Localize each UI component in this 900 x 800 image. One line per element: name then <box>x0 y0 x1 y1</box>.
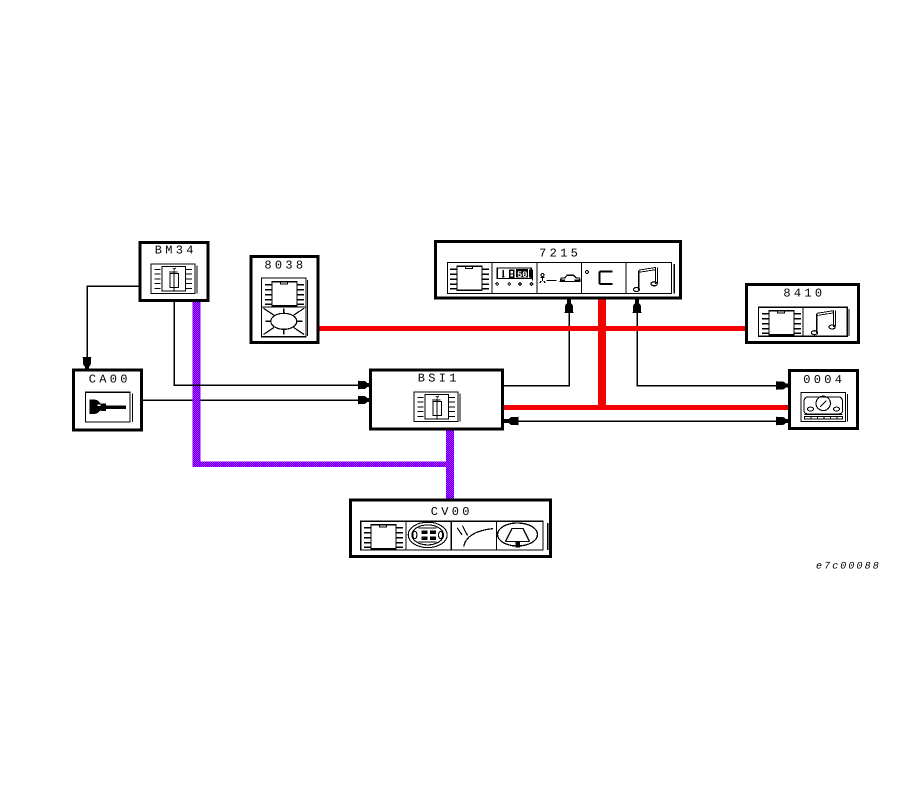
icon 8410 music note <box>811 311 835 335</box>
svg-text:8038: 8038 <box>264 259 306 273</box>
icon CV00 connector oval <box>408 522 447 547</box>
arrow into 0004 upper <box>776 381 791 390</box>
wire BM34 left to CA00 top <box>87 286 140 369</box>
svg-text:0004: 0004 <box>803 373 845 387</box>
wire 7215 to 0004 <box>637 299 789 386</box>
svg-text:7215: 7215 <box>539 247 581 261</box>
icon CV00 chip <box>364 525 403 549</box>
wire BSI1 right up to 7215 <box>503 299 569 386</box>
box BSI1 <box>371 370 503 429</box>
wire red vertical from 7215 down <box>598 298 606 410</box>
svg-text:CA00: CA00 <box>89 372 131 386</box>
arrow into BSI1 left upper <box>358 381 373 390</box>
icon 7215 music note <box>633 267 657 291</box>
icon 7215 temperature bracket <box>586 271 613 285</box>
svg-text:50: 50 <box>517 270 527 280</box>
box CV00 <box>351 500 551 557</box>
arrow into BSI1 left lower <box>358 396 373 405</box>
arrow into BSI1 right <box>504 417 519 426</box>
svg-text:e7c00088: e7c00088 <box>816 562 881 573</box>
wire red 8038 to 8410 horizontal <box>318 326 747 331</box>
svg-text:BSI1: BSI1 <box>418 371 460 385</box>
icon CV00 stalk <box>457 526 493 547</box>
icon 7215 clock display <box>495 268 534 286</box>
icon 7215 person and car <box>540 274 581 284</box>
box BM34 <box>140 243 208 301</box>
icon 8410 chip <box>762 311 801 335</box>
arrow into 7215 bottom left <box>565 298 574 313</box>
box CA00 <box>74 370 142 430</box>
wire CA00 right to BSI1 left <box>142 399 370 401</box>
icon CA00 key <box>90 400 102 415</box>
box 8410 <box>747 285 859 343</box>
box 0004 <box>790 371 858 429</box>
arrow into 0004 lower <box>776 417 791 426</box>
box 7215 <box>436 242 681 299</box>
svg-text:CV00: CV00 <box>431 505 473 519</box>
arrow into CA00 top <box>83 357 92 372</box>
wire BM34 bottom to BSI1 left <box>174 301 369 385</box>
wire purple vertical from BM34 <box>193 301 201 468</box>
wire BSI1 to 0004 lower <box>503 420 789 422</box>
svg-text:BM34: BM34 <box>155 244 197 258</box>
arrow into 7215 bottom right <box>633 298 642 313</box>
box 8038 <box>251 257 318 343</box>
svg-text:8410: 8410 <box>783 287 825 301</box>
icon 7215 chip <box>450 266 489 290</box>
wire purple vertical BSI1 to CV00 <box>446 429 454 500</box>
wire purple horizontal <box>193 462 455 468</box>
icon CV00 steering wheel <box>498 523 538 548</box>
wire red BSI1 to 0004 horizontal <box>503 405 790 410</box>
